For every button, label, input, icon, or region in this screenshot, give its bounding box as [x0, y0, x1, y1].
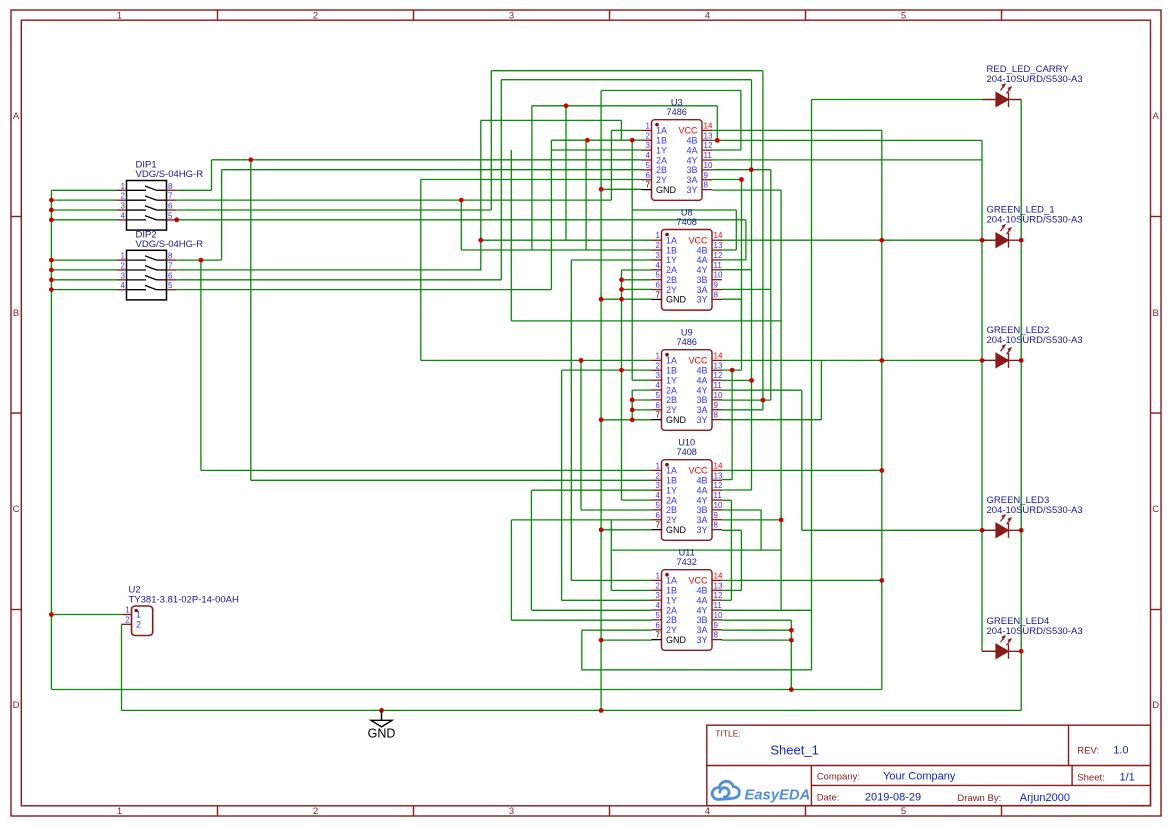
svg-text:2: 2 — [313, 10, 318, 21]
wire: A3 from DIP1.6 — [177, 209, 492, 211]
svg-text:1: 1 — [656, 351, 661, 360]
wire: drop to bottom rail — [790, 620, 792, 689]
svg-text:4Y: 4Y — [696, 265, 707, 275]
svg-text:3Y: 3Y — [696, 635, 707, 645]
svg-text:VDG/S-04HG-R: VDG/S-04HG-R — [136, 239, 204, 250]
junction (982.0,530.3) — [980, 528, 985, 533]
junction (632.2,419.8) — [630, 417, 635, 422]
svg-text:1A: 1A — [666, 576, 677, 586]
wire: U11 VCC to rail — [722, 579, 882, 581]
svg-text:12: 12 — [714, 371, 723, 380]
wire: U11 pin12 h — [722, 599, 732, 601]
svg-text:5: 5 — [168, 211, 173, 220]
LED GREEN_LED3 — [982, 495, 1083, 538]
junction (621.5,289.4) — [619, 287, 624, 292]
wire: DIP left pin — [51, 189, 116, 191]
LED GREEN_LED_1 — [982, 205, 1083, 248]
svg-text:1B: 1B — [666, 476, 677, 486]
wire: B1 riser — [221, 170, 223, 260]
junction (51.4,269.9) — [49, 268, 54, 273]
IC U11 7432 — [652, 548, 723, 651]
svg-text:C: C — [1152, 504, 1159, 515]
wire: U10 pin6 h — [511, 519, 651, 521]
svg-text:4: 4 — [656, 261, 661, 270]
svg-text:4A: 4A — [696, 375, 707, 385]
svg-text:7408: 7408 — [676, 447, 696, 457]
wire: to U8 pin2 — [461, 249, 651, 251]
svg-text:Sheet_1: Sheet_1 — [770, 743, 818, 758]
wire: to U8 pin1 — [481, 239, 652, 241]
svg-text:14: 14 — [714, 571, 723, 580]
svg-text:5: 5 — [901, 10, 906, 21]
svg-text:13: 13 — [714, 581, 723, 590]
wire: vert U3.2 to U8.2 row — [585, 140, 587, 250]
junction (751.2,169.7) — [749, 167, 754, 172]
svg-text:4: 4 — [121, 281, 126, 290]
svg-text:12: 12 — [714, 591, 723, 600]
junction (1021.2,530.3) — [1019, 528, 1024, 533]
wire: U9 GND h — [601, 419, 652, 421]
svg-text:204-10SURD/S530-A3: 204-10SURD/S530-A3 — [987, 74, 1083, 85]
wire: U10 VCC to rail — [722, 469, 882, 471]
svg-text:TITLE:: TITLE: — [715, 729, 741, 739]
svg-text:3A: 3A — [696, 515, 707, 525]
svg-text:14: 14 — [714, 231, 723, 240]
wire: U3 VCC to rail — [712, 129, 882, 131]
svg-text:2: 2 — [656, 471, 661, 480]
wire: B1 to U3 pin5 — [222, 169, 642, 171]
svg-text:11: 11 — [714, 261, 723, 270]
svg-text:GND: GND — [666, 295, 687, 305]
svg-text:4B: 4B — [686, 136, 697, 146]
svg-text:8: 8 — [714, 631, 719, 640]
svg-text:8: 8 — [714, 521, 719, 530]
svg-text:7408: 7408 — [676, 217, 696, 227]
svg-text:2: 2 — [136, 620, 141, 630]
svg-text:8: 8 — [714, 290, 719, 299]
svg-text:3A: 3A — [696, 625, 707, 635]
ground symbol — [368, 710, 396, 740]
junction (601.1,419.8) — [599, 417, 604, 422]
svg-text:3: 3 — [656, 251, 661, 260]
wire: B1 from DIP2.8 — [177, 259, 222, 261]
svg-text:C: C — [13, 504, 20, 515]
svg-text:Drawn By:: Drawn By: — [957, 793, 1001, 804]
svg-text:Date:: Date: — [817, 793, 840, 804]
wire: U3 pin13 to LED rail — [712, 139, 982, 141]
wire: U10 pin13 h — [722, 479, 732, 481]
svg-text:1/1: 1/1 — [1120, 772, 1135, 784]
wire: U8.13 feed h — [632, 209, 736, 211]
wire: LED carry anode h — [812, 99, 996, 101]
wire: U9 tie 4-5-6-7 — [631, 390, 633, 420]
svg-text:2A: 2A — [666, 385, 677, 395]
svg-text:7: 7 — [656, 631, 661, 640]
junction (51.4,289.6) — [49, 287, 54, 292]
wire: U3 pin6 output — [421, 179, 642, 181]
junction (250.8,159.8) — [248, 157, 253, 162]
IC U9 7486 — [652, 328, 723, 431]
svg-text:4B: 4B — [696, 586, 707, 596]
wire: U9 pin8 tie up to LED2 row — [820, 360, 822, 419]
wire: U10 pin12 h — [722, 489, 752, 491]
wire: carry h — [582, 669, 812, 671]
svg-text:5: 5 — [656, 611, 661, 620]
svg-text:3B: 3B — [696, 395, 707, 405]
wire: U11 pin8 h — [722, 639, 791, 641]
svg-text:3: 3 — [509, 10, 514, 21]
svg-text:GND: GND — [666, 635, 687, 645]
svg-text:B: B — [13, 308, 19, 319]
svg-text:3B: 3B — [686, 165, 697, 175]
wire: DIP left pin — [51, 269, 116, 271]
svg-text:2019-08-29: 2019-08-29 — [865, 792, 921, 804]
svg-text:2B: 2B — [656, 165, 667, 175]
svg-text:Your Company: Your Company — [883, 771, 956, 783]
svg-text:11: 11 — [714, 381, 723, 390]
svg-text:VCC: VCC — [678, 126, 698, 136]
wire: U10 pin9 h — [722, 519, 781, 521]
junction (781.1,519.9) — [779, 518, 784, 523]
svg-text:4: 4 — [656, 491, 661, 500]
wire: vert to U11 pin2 — [610, 520, 612, 591]
svg-text:5: 5 — [646, 161, 651, 170]
junction (621.5,370.1) — [619, 368, 624, 373]
svg-text:6: 6 — [656, 281, 661, 290]
svg-text:4Y: 4Y — [696, 495, 707, 505]
wire: vert to U9 pin10 — [770, 170, 772, 400]
wire: vert from mid bus to U8.1 row — [565, 106, 567, 240]
wire: U10 pin3 h — [532, 489, 652, 491]
wire: branch to U10 pin5 — [580, 360, 582, 510]
svg-text:3B: 3B — [696, 505, 707, 515]
svg-text:14: 14 — [714, 351, 723, 360]
svg-text:11: 11 — [714, 491, 723, 500]
junction (601.1,299.2) — [599, 297, 604, 302]
wire: bottom VCC return horizontal — [51, 689, 881, 691]
wire: U9 pin5 h — [632, 399, 652, 401]
wire: vert seg upper 511 — [510, 150, 512, 321]
svg-text:10: 10 — [714, 271, 723, 280]
svg-text:3: 3 — [646, 141, 651, 150]
wire: U9 pin11 h — [722, 389, 802, 391]
svg-text:3A: 3A — [696, 285, 707, 295]
wire: U3 pin9 h — [712, 179, 742, 181]
junction (566.0,105.8) — [564, 103, 569, 108]
svg-text:3A: 3A — [686, 175, 697, 185]
svg-text:2B: 2B — [666, 615, 677, 625]
svg-text:2: 2 — [121, 192, 126, 201]
svg-text:10: 10 — [704, 161, 713, 170]
junction (881.8,240.2) — [879, 238, 884, 243]
wire: U11 GND h — [601, 639, 652, 641]
svg-text:4A: 4A — [686, 145, 697, 155]
svg-text:4: 4 — [705, 10, 710, 21]
svg-text:1: 1 — [656, 461, 661, 470]
wire: A1 from DIP1.8 — [177, 189, 212, 191]
svg-text:1B: 1B — [666, 366, 677, 376]
wire: DIP left pin — [51, 259, 116, 261]
wire: U10 GND h — [601, 529, 652, 531]
junction (601.1,189.3) — [599, 187, 604, 192]
wire: U8 GND h — [601, 298, 652, 300]
svg-text:1B: 1B — [656, 136, 667, 146]
svg-text:1A: 1A — [666, 356, 677, 366]
svg-text:4B: 4B — [696, 476, 707, 486]
wire: LED anode rail vertical — [981, 140, 983, 651]
svg-text:1Y: 1Y — [656, 145, 667, 155]
wire: U9 pin10 h — [722, 399, 771, 401]
wire: DIP common rail vertical — [50, 190, 52, 689]
svg-text:2: 2 — [656, 581, 661, 590]
svg-text:GND: GND — [666, 525, 687, 535]
wire: U10.8 drop to U11.13 — [740, 530, 742, 590]
svg-text:1B: 1B — [666, 245, 677, 255]
svg-text:4Y: 4Y — [696, 605, 707, 615]
junction (632.2,409.9) — [630, 408, 635, 413]
svg-text:4A: 4A — [696, 255, 707, 265]
wire: mid bus h — [532, 105, 717, 107]
junction (381.5,710.4) — [379, 708, 384, 713]
LED RED_LED_CARRY — [982, 64, 1083, 107]
svg-text:3Y: 3Y — [696, 295, 707, 305]
svg-text:204-10SURD/S530-A3: 204-10SURD/S530-A3 — [987, 215, 1083, 226]
wire: U8 pin5 h — [622, 279, 652, 281]
svg-text:3Y: 3Y — [696, 525, 707, 535]
junction (581.0,360.4) — [579, 358, 584, 363]
junction (51.4,260.1) — [49, 258, 54, 263]
svg-text:10: 10 — [714, 391, 723, 400]
svg-text:8: 8 — [168, 252, 173, 261]
wire: U10.3 to U11.4 riser — [530, 490, 532, 610]
svg-text:D: D — [1152, 700, 1159, 711]
svg-text:1: 1 — [125, 606, 130, 615]
junction (751.5,380.4) — [749, 378, 754, 383]
wire: B2 top h — [481, 119, 622, 121]
svg-text:5: 5 — [656, 271, 661, 280]
junction (791.3,640.1) — [789, 638, 794, 643]
svg-text:13: 13 — [714, 241, 723, 250]
svg-text:11: 11 — [704, 151, 713, 160]
junction (200.9,260.1) — [199, 258, 204, 263]
svg-text:10: 10 — [714, 501, 723, 510]
svg-text:3Y: 3Y — [696, 415, 707, 425]
wire: B4 riser to U3 pin2 net — [550, 140, 552, 289]
svg-text:6: 6 — [646, 171, 651, 180]
svg-text:3: 3 — [656, 591, 661, 600]
wire: vert from mid bus — [531, 106, 533, 250]
svg-text:2Y: 2Y — [666, 625, 677, 635]
svg-text:GND: GND — [368, 726, 396, 740]
junction (51.4,200.1) — [49, 198, 54, 203]
svg-text:4: 4 — [705, 806, 710, 817]
svg-text:2: 2 — [656, 361, 661, 370]
svg-text:REV:: REV: — [1077, 746, 1099, 757]
svg-text:13: 13 — [704, 131, 713, 140]
svg-text:3: 3 — [121, 202, 126, 211]
svg-text:2: 2 — [125, 616, 130, 625]
IC U8 7408 — [652, 208, 723, 311]
wire: long vert bus2/B3 — [500, 80, 502, 280]
wire: vert U8.3 to U11.1 — [570, 260, 572, 580]
junction (791.3,689.5) — [789, 687, 794, 692]
svg-text:4: 4 — [656, 601, 661, 610]
junction (601.1,640.1) — [599, 638, 604, 643]
svg-text:U3: U3 — [671, 98, 683, 108]
svg-text:12: 12 — [704, 141, 713, 150]
junction (791.3,630.2) — [789, 628, 794, 633]
junction (1021.2,651.3) — [1019, 649, 1024, 654]
wire: long tie U8.4 down to U10.4 — [621, 270, 623, 500]
junction (982.0,360.4) — [980, 358, 985, 363]
svg-text:A: A — [1153, 111, 1160, 122]
svg-text:VCC: VCC — [688, 576, 708, 586]
wire: U11 pin13 h — [722, 589, 742, 591]
wire: carry drop — [581, 630, 583, 670]
svg-text:2Y: 2Y — [666, 405, 677, 415]
svg-text:3Y: 3Y — [686, 185, 697, 195]
svg-text:3: 3 — [121, 271, 126, 280]
wire: GND bottom rail — [122, 709, 1022, 711]
svg-text:7486: 7486 — [666, 107, 686, 117]
wire: branch down to U9 pin3 — [631, 140, 633, 380]
svg-text:U10: U10 — [678, 438, 695, 448]
wire: drop to U8 pin13 — [735, 210, 737, 250]
svg-text:2Y: 2Y — [666, 285, 677, 295]
svg-text:6: 6 — [656, 621, 661, 630]
wire: drop to U3 pin13 — [716, 106, 718, 141]
wire: U11 pin1 h — [571, 579, 651, 581]
svg-text:2B: 2B — [666, 505, 677, 515]
svg-text:3: 3 — [509, 806, 514, 817]
svg-text:2: 2 — [313, 806, 318, 817]
wire: top bus 2 — [501, 79, 751, 81]
junction (741.5,179.5) — [739, 177, 744, 182]
svg-text:2Y: 2Y — [666, 515, 677, 525]
svg-text:2B: 2B — [666, 275, 677, 285]
wire: U9 pin2 h — [562, 369, 652, 371]
svg-text:2A: 2A — [656, 155, 667, 165]
svg-text:VCC: VCC — [688, 236, 708, 246]
wire: U8 pin12 h — [722, 259, 746, 261]
svg-text:4: 4 — [656, 381, 661, 390]
wire: to U9 pin1 — [421, 359, 652, 361]
wire: A1 to U3 pin4 — [212, 159, 642, 161]
wire: U9 pin12 h — [722, 379, 752, 381]
wire: A1 riser — [211, 160, 213, 191]
junction (632.2,140.2) — [630, 138, 635, 143]
svg-text:U9: U9 — [681, 328, 693, 338]
svg-text:3B: 3B — [696, 615, 707, 625]
wire: DIP left pin — [51, 209, 116, 211]
svg-text:1B: 1B — [666, 586, 677, 596]
wire: U3 pin11 h — [712, 159, 982, 161]
svg-text:8: 8 — [704, 181, 709, 190]
svg-text:12: 12 — [714, 251, 723, 260]
svg-text:6: 6 — [656, 401, 661, 410]
svg-text:GND: GND — [656, 185, 677, 195]
wire: to U10 pin2 — [251, 479, 652, 481]
svg-text:6: 6 — [168, 202, 173, 211]
svg-text:4B: 4B — [696, 245, 707, 255]
wire: U3 pin10 h — [712, 169, 771, 171]
wire: drop to U3 pin12 — [740, 91, 742, 151]
wire: DIP left pin — [51, 199, 116, 201]
svg-text:4: 4 — [121, 211, 126, 220]
svg-text:D: D — [13, 700, 20, 711]
svg-text:1Y: 1Y — [666, 595, 677, 605]
junction (762.9,400.1) — [761, 398, 766, 403]
LED GREEN_LED2 — [982, 325, 1083, 368]
wire: vert to U9 pin13 — [741, 180, 743, 371]
wire: B2 drop to U3 pin2 — [620, 120, 622, 140]
svg-text:6: 6 — [168, 271, 173, 280]
wire: long vert right channel — [780, 190, 782, 610]
wire: h550 link — [611, 549, 781, 551]
svg-text:9: 9 — [714, 511, 719, 520]
wire: LED3 anode h — [802, 529, 995, 531]
wire: U8 pin11 h — [722, 269, 752, 271]
wire: to U2 pin1 — [51, 614, 121, 616]
svg-text:5: 5 — [656, 391, 661, 400]
svg-text:EasyEDA: EasyEDA — [745, 788, 811, 804]
svg-text:7432: 7432 — [676, 557, 696, 567]
wire: A1 branch down — [250, 160, 252, 481]
svg-text:4A: 4A — [696, 595, 707, 605]
svg-text:1Y: 1Y — [666, 255, 677, 265]
wire: branch to U10 pin13 — [731, 370, 733, 480]
svg-text:5: 5 — [656, 501, 661, 510]
DIP switch DIP1 — [117, 160, 204, 231]
svg-text:204-10SURD/S530-A3: 204-10SURD/S530-A3 — [987, 335, 1083, 346]
junction (601.1,710.4) — [599, 708, 604, 713]
wire: U10 pin4 h — [622, 499, 652, 501]
svg-text:3: 3 — [656, 371, 661, 380]
wire: U9 pin4 h — [632, 389, 652, 391]
svg-text:1: 1 — [646, 121, 651, 130]
svg-text:5: 5 — [168, 281, 173, 290]
wire: U9 pin13 h — [722, 369, 742, 371]
wire: U9 VCC to LED2 — [722, 359, 995, 361]
svg-text:7: 7 — [656, 521, 661, 530]
svg-text:1: 1 — [117, 806, 122, 817]
wire: U8 pin4 h — [622, 269, 652, 271]
svg-text:1: 1 — [656, 231, 661, 240]
svg-text:10: 10 — [714, 611, 723, 620]
wire: vert to LED3 — [801, 390, 803, 530]
wire: U11 pin5 riser — [510, 520, 512, 620]
svg-text:204-10SURD/S530-A3: 204-10SURD/S530-A3 — [987, 626, 1083, 637]
wire: DIP left pin — [51, 219, 116, 221]
wire: U2 pin2 down — [121, 624, 123, 710]
junction (51.4,210.0) — [49, 208, 54, 213]
junction (621.5,279.8) — [619, 277, 624, 282]
svg-text:1Y: 1Y — [666, 485, 677, 495]
svg-text:12: 12 — [714, 481, 723, 490]
wire: U10 pin11 h — [722, 499, 732, 501]
svg-text:7: 7 — [656, 290, 661, 299]
svg-text:1: 1 — [121, 252, 126, 261]
svg-text:2Y: 2Y — [656, 175, 667, 185]
svg-text:4Y: 4Y — [696, 385, 707, 395]
svg-text:7: 7 — [646, 181, 651, 190]
svg-text:Arjun2000: Arjun2000 — [1020, 792, 1070, 804]
wire: U9 pin3 h — [632, 379, 652, 381]
svg-text:VCC: VCC — [688, 466, 708, 476]
wire: U3 pin2 h — [551, 139, 641, 141]
svg-text:9: 9 — [714, 281, 719, 290]
svg-text:GND: GND — [666, 415, 687, 425]
